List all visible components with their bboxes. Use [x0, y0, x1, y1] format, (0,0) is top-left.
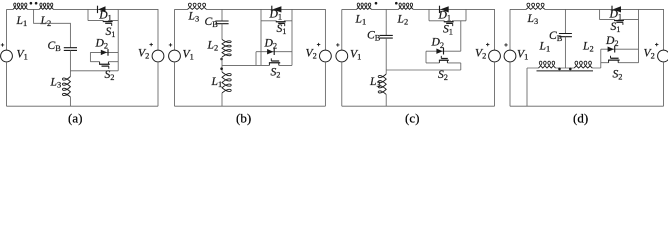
wire: CB top lead (b)	[221, 9, 223, 21]
wire: top bus to V2 (c)	[466, 9, 495, 50]
wire: middle bus left leg (d)	[526, 68, 528, 106]
inductor L3 (a)	[62, 77, 70, 97]
label V2 (b)	[306, 46, 317, 60]
label D1 (b)	[269, 7, 283, 21]
transistor S2 (d)	[608, 56, 620, 63]
polarity dot L2 (b)	[220, 58, 223, 61]
label V1 (b)	[183, 47, 194, 61]
inductor L3 (c)	[378, 74, 386, 94]
wire: CB bottom lead to node Y (a)	[69, 50, 71, 70]
polarity dot L2 (a)	[35, 2, 38, 5]
diode D1 (d)	[612, 6, 621, 13]
wire: S1 branch (a)	[88, 20, 118, 22]
inductor L2 (d)	[574, 61, 592, 68]
label L1 (b)	[211, 75, 223, 89]
wire: tap jog from L1-L2 junction to CB column (a)	[34, 9, 71, 47]
capacitor CB (c)	[380, 35, 393, 38]
wire: panel (a) top bus left	[7, 8, 89, 10]
voltage source V2 (a)	[150, 43, 164, 62]
diode D2 (c)	[436, 48, 443, 55]
diode D2 (a)	[101, 49, 108, 56]
transistor S2 (c)	[439, 56, 449, 63]
wire: S1 cell left leg (c)	[428, 9, 430, 20]
caption (b)	[236, 111, 251, 126]
wire: S2 branch (b)	[256, 64, 292, 66]
wire: S1 cell right leg (c)	[465, 9, 467, 20]
label S2 (c)	[438, 68, 448, 82]
label CB (a)	[48, 39, 62, 53]
wire: S1 cell left leg (d)	[599, 9, 601, 19]
polarity dot L1 (d)	[558, 68, 561, 71]
wire: D2 branch (b)	[256, 51, 292, 53]
label S1 (b)	[277, 22, 287, 36]
label S2 (d)	[613, 68, 623, 82]
wire: V2 bottom lead (b)	[324, 62, 326, 106]
voltage source V1 (a)	[1, 43, 13, 62]
transistor S1 (d)	[614, 20, 624, 25]
wire: CB bottom lead (d)	[564, 37, 566, 68]
wire: D1 branch top (b)	[261, 8, 292, 10]
wire: panel (c) top bus	[342, 8, 429, 10]
wire: V2 bottom lead (a)	[157, 62, 159, 106]
wire: D2 cell left leg (b)	[255, 52, 257, 66]
wire: mid rail (a)	[117, 9, 119, 70]
label L2 (c)	[397, 13, 409, 27]
label D2 (d)	[605, 34, 619, 48]
wire: V2 bottom lead (c)	[494, 62, 496, 106]
wire: S2 branch (a)	[90, 61, 118, 63]
svg-text:(b): (b)	[236, 111, 251, 126]
label D1 (c)	[438, 8, 452, 22]
caption (a)	[68, 111, 82, 126]
inductor L3 (d)	[526, 3, 545, 9]
label S2 (b)	[271, 66, 281, 80]
inductor L1 (a)	[13, 3, 28, 9]
polarity dot L1 (b)	[220, 67, 223, 70]
wire: S2 branch (d)	[601, 62, 639, 64]
wire: L3 top lead (c)	[385, 70, 387, 74]
wire: CB bottom lead to node Y (c)	[385, 38, 387, 70]
wire: mid rail (b)	[291, 9, 293, 65]
wire: S1 branch (d)	[600, 19, 639, 21]
label L1 (c)	[355, 13, 367, 27]
label L3 (a)	[50, 75, 62, 89]
inductor L1 (d)	[539, 61, 556, 68]
transistor S1 (a)	[103, 21, 113, 26]
wire: S1 branch (b)	[261, 20, 292, 22]
wire: top bus to V2 (d)	[639, 9, 664, 50]
wire: Y riser to S2 branch (c)	[460, 63, 462, 70]
label L2 (a)	[40, 14, 52, 28]
label D2 (b)	[264, 36, 278, 50]
voltage source V2 (d)	[655, 43, 668, 62]
voltage source V2 (b)	[317, 43, 331, 62]
wire: L2-L1 junction segment (b)	[221, 57, 223, 72]
wire: node Y horizontal to cell column (a)	[70, 70, 118, 72]
wire: panel (d) bottom bus	[510, 105, 664, 107]
wire: junction to S2 branch (b)	[222, 64, 256, 66]
label CB (d)	[549, 29, 563, 43]
wire: S2 branch (c)	[426, 62, 461, 64]
polarity dot L1 (c)	[375, 2, 378, 5]
label L3 (c)	[369, 75, 381, 89]
label D2 (a)	[95, 36, 109, 50]
label L2 (b)	[207, 39, 219, 53]
wire: panel (c) left rail bottom	[341, 62, 343, 106]
svg-text:(d): (d)	[573, 111, 588, 126]
label S1 (a)	[106, 25, 116, 39]
label S1 (c)	[443, 23, 453, 37]
wire: D2 cell left leg (a)	[89, 52, 91, 61]
diode D2 (b)	[267, 48, 274, 55]
wire: L3 bottom lead (a)	[69, 97, 71, 106]
label V1 (c)	[350, 47, 361, 61]
label D2 (c)	[431, 36, 445, 50]
diode D2 (d)	[608, 46, 615, 53]
inductor L1 (b)	[222, 72, 231, 93]
label V2 (a)	[138, 46, 149, 60]
wire: L1 bottom lead (b)	[221, 93, 223, 106]
wire: CB top lead (c)	[385, 9, 387, 35]
wire: L3 bottom lead (c)	[385, 95, 387, 107]
wire: D2 cell left leg (d)	[600, 49, 602, 68]
polarity dot L2 (d)	[569, 68, 572, 71]
wire: panel (c) left rail top	[341, 9, 343, 50]
caption (d)	[573, 111, 588, 126]
wire: panel (d) top bus	[510, 8, 600, 10]
capacitor CB (b)	[215, 21, 228, 24]
wire: D2 branch (a)	[90, 51, 118, 53]
wire: D1 branch top (c)	[429, 8, 466, 10]
inductor L2 (a)	[39, 3, 53, 9]
wire: top bus to V2 (b)	[292, 9, 325, 50]
diode D1 (c)	[440, 6, 449, 13]
label V1 (a)	[17, 47, 28, 61]
label D1 (d)	[609, 8, 623, 22]
inductor L2 (c)	[398, 3, 413, 9]
wire: S1 branch (c)	[429, 20, 466, 22]
transistor S2 (b)	[269, 58, 280, 65]
wire: node Y horizontal (c)	[386, 69, 461, 71]
label CB (c)	[367, 28, 381, 42]
wire: panel (b) left rail bottom	[174, 62, 176, 106]
svg-text:(a): (a)	[68, 111, 82, 126]
label L1 (a)	[16, 14, 28, 28]
voltage source V2 (c)	[486, 43, 500, 62]
diode D1 (a)	[98, 6, 106, 13]
wire: D1 branch top (a)	[88, 8, 118, 10]
label S1 (d)	[611, 20, 621, 34]
wire: middle bus (d)	[527, 67, 601, 69]
core bar of coupled L1-L2 (d)	[537, 70, 594, 72]
wire: S1 cell left leg (a)	[87, 9, 89, 20]
diode D1 (b)	[272, 6, 282, 13]
wire: V2 bottom lead (d)	[663, 62, 665, 106]
wire: D2 branch (c)	[426, 50, 461, 52]
wire: panel (a) bottom bus	[7, 105, 159, 107]
label V2 (d)	[644, 46, 655, 60]
label CB (b)	[205, 15, 219, 29]
label S2 (a)	[105, 68, 115, 82]
polarity dot L1 (a)	[30, 2, 33, 5]
wire: L3 top lead (a)	[69, 71, 71, 77]
label L1 (d)	[539, 40, 551, 54]
wire: S1 cell left leg / midpoint link (b)	[260, 9, 262, 65]
inductor L1 (c)	[357, 3, 372, 9]
label V1 (d)	[517, 47, 528, 61]
label V2 (c)	[475, 46, 486, 60]
caption (c)	[405, 111, 419, 126]
wire: panel (b) top bus	[175, 8, 262, 10]
wire: D1 branch top (d)	[600, 8, 639, 10]
transistor S2 (a)	[99, 62, 110, 69]
label L3 (d)	[527, 12, 539, 26]
wire: D2 cell left leg (c)	[425, 51, 427, 63]
transistor S1 (b)	[276, 21, 286, 26]
wire: panel (b) left rail top	[174, 9, 176, 50]
svg-text:(c): (c)	[405, 111, 419, 126]
voltage source V1 (b)	[169, 43, 181, 62]
voltage source V1 (d)	[504, 43, 516, 62]
inductor L2 (b)	[222, 40, 231, 58]
wire: panel (a) left rail bottom	[6, 62, 8, 106]
wire: CB to L2 (b)	[221, 24, 223, 40]
transistor S1 (c)	[444, 21, 454, 26]
wire: CB top lead (d)	[564, 9, 566, 33]
wire: midpoint link (c)	[460, 21, 462, 51]
inductor L3 (b)	[188, 3, 207, 9]
label L2 (d)	[582, 40, 594, 54]
wire: panel (b) bottom bus	[175, 105, 326, 107]
wire: panel (a) left rail top	[6, 9, 8, 50]
wire: panel (d) left rail bottom	[509, 62, 511, 106]
polarity dot L2 (c)	[395, 2, 398, 5]
label L3 (b)	[188, 10, 200, 24]
wire: panel (c) bottom bus	[342, 105, 495, 107]
wire: top bus to V2 (a)	[118, 9, 158, 50]
wire: mid rail (d)	[638, 9, 640, 62]
wire: panel (d) left rail top	[509, 9, 511, 50]
capacitor CB (a)	[64, 48, 77, 51]
wire: D2 branch (d)	[601, 48, 639, 50]
voltage source V1 (c)	[336, 43, 348, 62]
capacitor CB (d)	[559, 34, 572, 37]
label D1 (a)	[98, 8, 112, 22]
